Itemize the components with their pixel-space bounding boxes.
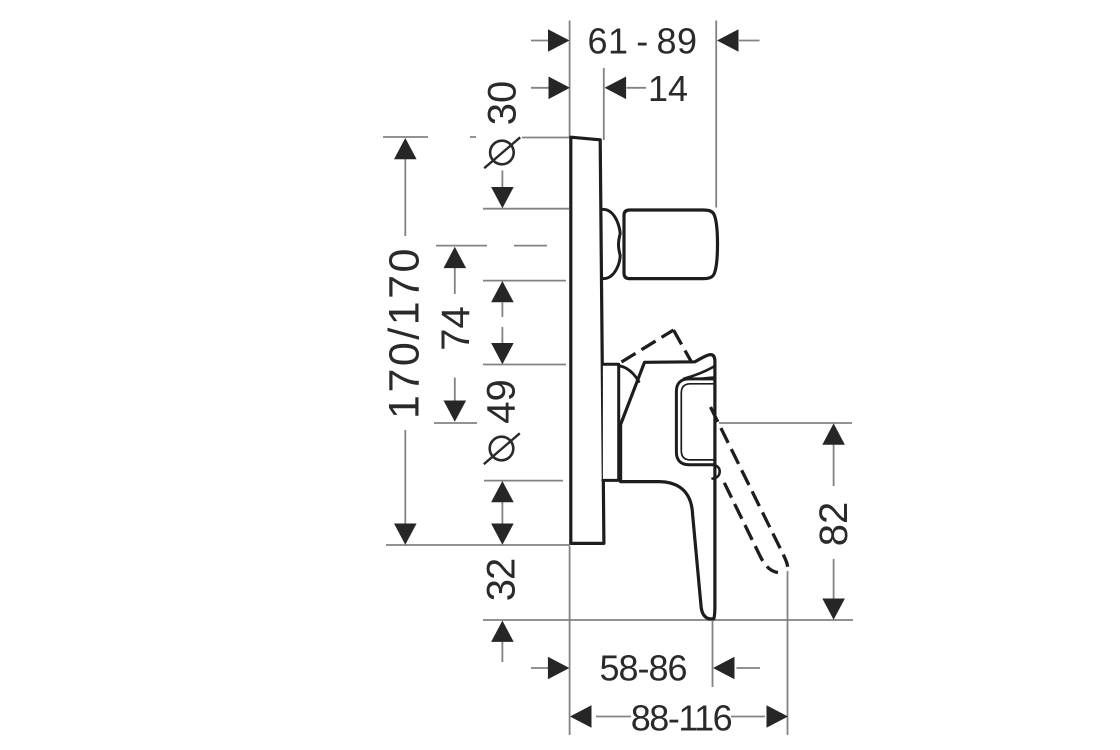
svg-text:61 - 89: 61 - 89 [588, 21, 698, 62]
svg-text:32: 32 [480, 559, 524, 602]
svg-text:88-116: 88-116 [631, 698, 732, 739]
svg-text:49: 49 [480, 379, 524, 424]
svg-text:82: 82 [812, 502, 856, 547]
svg-text:30: 30 [481, 81, 525, 126]
svg-text:14: 14 [648, 68, 688, 109]
svg-text:74: 74 [434, 306, 478, 351]
svg-text:58-86: 58-86 [599, 648, 686, 689]
svg-text:170/170: 170/170 [381, 246, 429, 419]
